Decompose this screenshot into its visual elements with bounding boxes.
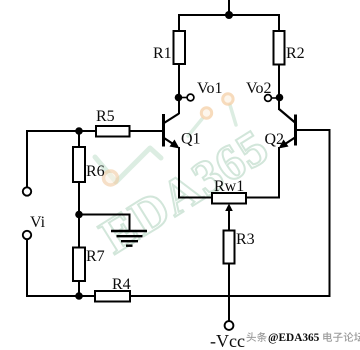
wire R1 to Q1 collector xyxy=(178,64,180,114)
wire R5 to Q1 base xyxy=(130,130,164,132)
wire R2 top drop xyxy=(278,14,280,31)
svg-text:R1: R1 xyxy=(153,45,172,62)
node left junction xyxy=(75,127,83,135)
wire Q2 emitter to Rw1 xyxy=(246,197,280,199)
svg-text:R3: R3 xyxy=(236,231,255,248)
svg-text:R4: R4 xyxy=(112,276,131,293)
resistor R3 xyxy=(224,231,235,264)
svg-text:R2: R2 xyxy=(286,45,305,62)
wire junction down to R6 xyxy=(78,131,80,147)
potentiometer Rw1 xyxy=(212,193,246,204)
watermark credit CJK 头条@EDA365电子论坛 xyxy=(247,332,360,344)
wire Vi lower to bottom rail xyxy=(26,239,28,297)
svg-text:Q1: Q1 xyxy=(181,131,201,148)
svg-text:@EDA365: @EDA365 xyxy=(268,332,320,344)
terminal -Vcc xyxy=(225,321,234,330)
resistor R1 xyxy=(174,31,186,64)
watermark orange ring 1 xyxy=(201,108,211,118)
resistor R2 xyxy=(274,31,285,65)
svg-text:R6: R6 xyxy=(86,163,105,180)
svg-text:Rw1: Rw1 xyxy=(214,178,244,195)
svg-text:R7: R7 xyxy=(86,248,105,265)
wire R3 to -Vcc xyxy=(228,264,230,322)
wire bottom rail right xyxy=(130,295,331,297)
wire top-left horizontal xyxy=(26,130,79,132)
resistor R7 xyxy=(73,248,85,282)
watermark orange ring left xyxy=(104,171,118,185)
terminal Vo2 xyxy=(265,95,272,102)
wire top rail xyxy=(178,14,280,16)
wire Q1 emitter to Rw1 xyxy=(178,197,212,199)
watermark swoosh zigzag xyxy=(95,148,161,182)
wire Vo1 stub xyxy=(179,97,188,99)
terminal Vi upper xyxy=(23,187,31,195)
node Vo1 xyxy=(175,94,183,102)
node top junction xyxy=(225,11,233,19)
wire right rail down xyxy=(329,129,331,297)
node bottom junction xyxy=(75,292,83,300)
wire top stub +Vcc xyxy=(228,0,230,15)
resistor R4 xyxy=(95,291,130,302)
wire to ground xyxy=(79,214,131,216)
ground xyxy=(111,231,147,246)
watermark orange ring 2 xyxy=(223,94,233,104)
svg-text:Vi: Vi xyxy=(30,214,46,231)
svg-text:Q2: Q2 xyxy=(265,131,285,148)
wire Vi upper to top-left xyxy=(26,130,28,187)
wire junction to R5 xyxy=(79,130,96,132)
node Vo2 xyxy=(276,94,284,102)
wiper arrow Rw1 xyxy=(228,208,230,231)
wire R1 top drop xyxy=(178,14,180,31)
wire Q2 base to right rail xyxy=(296,129,331,131)
wire R7 to bottom rail xyxy=(78,281,80,297)
transistor Q1 xyxy=(164,114,180,149)
watermark logo EDA365 xyxy=(90,118,278,264)
wire bottom rail left xyxy=(26,295,95,297)
transistor Q2 xyxy=(279,109,296,149)
wire Q2 emitter down xyxy=(278,147,280,199)
node ground junction xyxy=(75,211,83,219)
svg-text:Vo2: Vo2 xyxy=(246,80,272,97)
terminal Vi lower xyxy=(23,231,31,239)
watermark stems xyxy=(188,119,202,136)
wire Q1 emitter down xyxy=(178,147,180,199)
svg-text:Vo1: Vo1 xyxy=(197,80,223,97)
wire junction to R7 xyxy=(78,215,80,248)
wire Vo2 stub xyxy=(271,97,280,99)
wire R6 to lower junction xyxy=(78,182,80,215)
svg-text:-Vcc: -Vcc xyxy=(210,331,245,350)
wire R2 to Q2 collector xyxy=(278,65,280,111)
resistor R5 xyxy=(96,126,130,137)
svg-text:R5: R5 xyxy=(96,108,115,125)
terminal Vo1 xyxy=(187,94,194,101)
resistor R6 xyxy=(73,147,85,182)
